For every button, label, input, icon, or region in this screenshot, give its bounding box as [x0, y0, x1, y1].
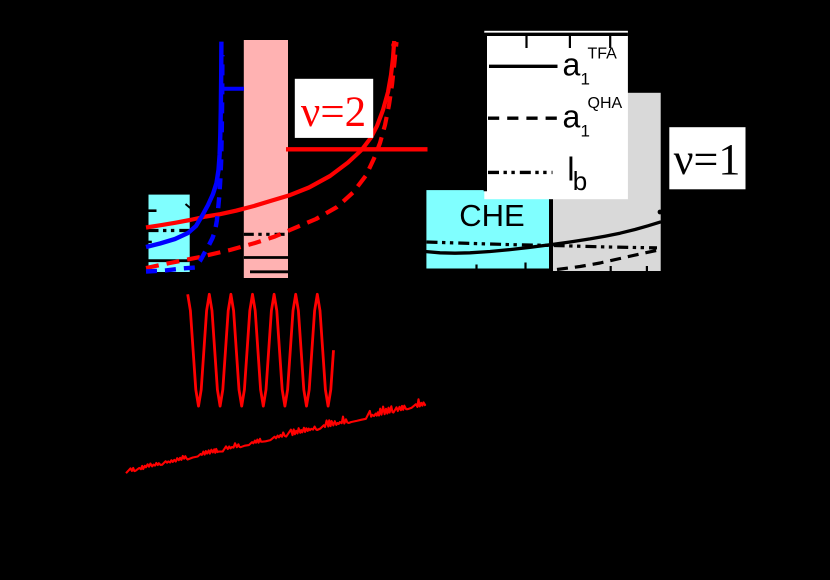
legend solid line sample	[489, 65, 558, 68]
legend white box	[484, 31, 628, 199]
svg-text:QHA: QHA	[588, 95, 623, 112]
svg-text:1: 1	[581, 70, 590, 89]
red sine oscillation trace	[188, 294, 334, 406]
legend dashed line sample	[488, 116, 557, 119]
top tick 1	[525, 36, 527, 48]
pink region nu=2	[244, 40, 288, 278]
nu=1 label box	[669, 127, 745, 189]
bottom tick 3	[610, 266, 612, 271]
svg-text:TFA: TFA	[588, 45, 618, 62]
legend top axis line	[484, 33, 628, 36]
bottom tick 2	[524, 263, 526, 269]
black dash-dot-dot lb line nu=1	[427, 242, 658, 248]
svg-text:ν=1: ν=1	[674, 135, 741, 184]
svg-text:a: a	[563, 47, 581, 83]
bottom tick 4	[646, 266, 648, 271]
svg-text:1: 1	[581, 122, 590, 141]
red noisy rising trace	[126, 399, 425, 473]
black solid level line in pink (upper)	[244, 256, 289, 259]
black solid level line in pink (lower)	[250, 270, 288, 273]
legend dash-dot-dot line sample	[488, 171, 553, 174]
top tick 2	[569, 36, 571, 48]
bottom tick 1	[475, 265, 477, 269]
svg-text:a: a	[563, 99, 581, 135]
svg-text:b: b	[573, 166, 587, 196]
red solid curve top end blob	[391, 42, 396, 47]
gray region nu=1	[551, 93, 661, 271]
red horizontal line	[286, 147, 428, 151]
black solid level line in cyan	[149, 259, 190, 262]
inset axis vertical line between cyan and gray	[549, 93, 553, 279]
top tick 3	[609, 36, 611, 48]
black dash-dot-dot level line in pink	[244, 233, 288, 236]
black solid curve a1TFA nu=1	[425, 222, 661, 253]
red dashed curve a1QHA nu=2	[146, 42, 397, 268]
black small dash left edge of cyan	[149, 241, 152, 243]
cyan region CHE	[426, 190, 549, 268]
black diagonal tick top-right of cyan	[186, 204, 191, 208]
svg-text:ν=2: ν=2	[301, 89, 366, 136]
black dashed curve a1QHA nu=1	[557, 250, 661, 270]
svg-text:CHE: CHE	[459, 198, 524, 233]
black dash top-left of cyan	[149, 209, 157, 212]
blue solid curve lb nu=2	[146, 42, 221, 247]
legend left axis line	[484, 33, 487, 191]
blue dashed curve nu=2	[146, 55, 222, 272]
black dash-dot-dot level line in cyan	[149, 229, 190, 232]
marker dot at end of solid curve	[658, 210, 663, 215]
blue crossbar at top	[221, 87, 244, 91]
nu=2 label box	[295, 79, 373, 138]
cyan region nu=2	[149, 195, 190, 272]
red solid curve a1TFA nu=2	[146, 41, 394, 228]
